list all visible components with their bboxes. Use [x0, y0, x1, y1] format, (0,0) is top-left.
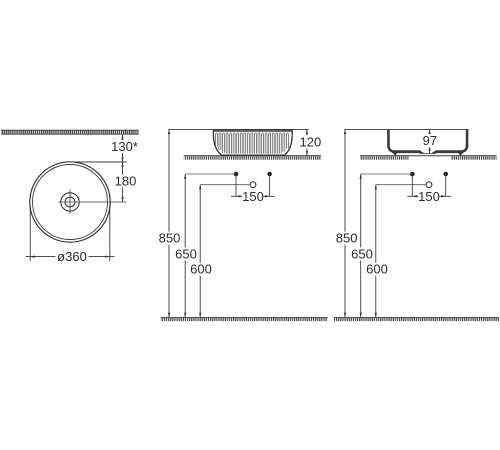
- label 650 (front): [174, 246, 198, 261]
- arrow right 150 (front): [265, 195, 270, 197]
- drain inner circle: [65, 197, 75, 207]
- arrow right 150 (section): [441, 195, 446, 197]
- dimension line 120: [306, 129, 308, 155]
- drain outer circle: [61, 193, 79, 211]
- svg-text:ø360: ø360: [57, 249, 87, 264]
- label 130*: [110, 139, 139, 154]
- extension line drain level: [200, 184, 250, 186]
- dimension line 97: [429, 129, 431, 153]
- arrow down 600 (front): [199, 313, 201, 318]
- counter hatch right (section): [451, 156, 497, 159]
- extension line circle left for diameter: [29, 207, 31, 261]
- floor hatch strip (section view): [334, 318, 499, 322]
- label 850 (front): [158, 231, 182, 246]
- extension line dots level (section): [361, 173, 413, 175]
- arrow up 600 (section): [375, 185, 377, 190]
- svg-text:130*: 130*: [111, 139, 138, 154]
- tap hole dot left (front): [234, 172, 239, 177]
- tap hole dot right (front): [267, 172, 272, 177]
- dimension line 600 (section): [375, 185, 377, 318]
- drain centerline horizontal: [59, 201, 127, 203]
- label 97: [422, 133, 439, 148]
- wall hatch strip (top view): [1, 130, 139, 135]
- svg-text:850: 850: [159, 231, 181, 246]
- stem left dot (section): [411, 174, 413, 196]
- basin right side (front): [285, 130, 292, 155]
- svg-text:650: 650: [175, 246, 197, 261]
- arrow down at circle center: [121, 197, 123, 202]
- dimension line 600 (front): [199, 185, 201, 318]
- label 600 (front): [189, 262, 213, 277]
- stem left dot: [235, 174, 237, 196]
- label 600 (section): [365, 262, 389, 277]
- arrow down 850 (front): [168, 313, 170, 318]
- extension line circle right for diameter: [109, 207, 111, 261]
- arrow up at circle top: [121, 162, 123, 167]
- arrow up at wall: [121, 135, 123, 140]
- label 150 (section): [418, 189, 440, 204]
- svg-text:150: 150: [242, 189, 264, 204]
- arrow up 600 (front): [199, 185, 201, 190]
- svg-text:600: 600: [190, 262, 212, 277]
- section drain taper left: [420, 150, 425, 153]
- section drain taper right: [431, 150, 436, 153]
- dimension line 150 (front): [231, 195, 275, 197]
- counter top line (section): [360, 155, 497, 157]
- dimension line 130/180 vertical: [122, 135, 124, 202]
- arrow right diameter: [105, 255, 110, 257]
- extension line rim (section): [345, 128, 469, 130]
- arrow down 650 (section): [360, 313, 362, 318]
- section left wall: [388, 130, 393, 152]
- label 180: [114, 174, 138, 189]
- arrow left diameter: [30, 255, 35, 257]
- dimension line 850 (section): [344, 129, 346, 317]
- section foot tab right: [458, 152, 464, 155]
- arrow up 850 (section): [344, 129, 346, 134]
- stem right dot (section): [445, 174, 447, 196]
- arrow left 150 (front): [236, 195, 241, 197]
- extension line dots level: [185, 173, 236, 175]
- dimension line 150 (section): [407, 195, 451, 197]
- arrow down 97: [428, 149, 430, 154]
- basin rim (front): [213, 130, 292, 132]
- arrow up 650 (section): [360, 174, 362, 179]
- svg-text:850: 850: [336, 231, 358, 246]
- stem right dot: [269, 174, 271, 196]
- open circle drain (front): [250, 182, 256, 188]
- arrow down 600 (section): [375, 313, 377, 318]
- basin left side (front): [213, 130, 221, 155]
- dimension line 650 (front): [184, 174, 186, 317]
- extension line basin top: [169, 128, 309, 130]
- tap hole dot left (section): [410, 172, 415, 177]
- label diameter 360: [56, 249, 89, 264]
- arrow up 120: [306, 129, 308, 134]
- counter hatch strip (front view): [184, 156, 321, 160]
- floor hatch strip (front view): [161, 318, 328, 322]
- svg-text:120: 120: [300, 134, 322, 149]
- section right wall: [462, 130, 467, 152]
- dimension line 850 (front): [168, 129, 170, 317]
- drain centerline vertical: [69, 190, 71, 215]
- basin bottom (front): [221, 154, 286, 156]
- section foot tab left: [392, 152, 398, 155]
- arrow down at circle top: [121, 157, 123, 162]
- label 120: [300, 134, 322, 149]
- svg-text:600: 600: [366, 262, 388, 277]
- label 850 (section): [335, 231, 359, 246]
- arrow up 97: [428, 129, 430, 134]
- dimension line 650 (section): [360, 174, 362, 317]
- tap hole dot right (section): [443, 172, 448, 177]
- section drain bottom line: [420, 153, 437, 155]
- svg-text:150: 150: [418, 189, 440, 204]
- basin outer circle (top view): [30, 162, 110, 242]
- open circle drain (section): [426, 182, 432, 188]
- basin inner circle (top view): [33, 165, 108, 240]
- arrow down 650 (front): [184, 313, 186, 318]
- svg-text:180: 180: [115, 174, 137, 189]
- label 650 (section): [350, 246, 374, 261]
- counter hatch left (section): [360, 156, 409, 159]
- arrow down 120: [306, 151, 308, 156]
- arrow up 650 (front): [184, 174, 186, 179]
- arrow down 850 (section): [344, 313, 346, 318]
- arrow up 850 (front): [168, 129, 170, 134]
- dimension line diameter: [26, 256, 115, 258]
- label 150 (front): [242, 189, 264, 204]
- section bottom band right: [436, 150, 464, 153]
- extension line drain level (section): [376, 184, 426, 186]
- basin flutes: [215, 133, 288, 154]
- section bottom band left: [392, 150, 420, 153]
- svg-text:97: 97: [423, 133, 437, 148]
- arrow left 150 (section): [412, 195, 417, 197]
- extension line circle top: [70, 161, 127, 163]
- svg-text:650: 650: [351, 246, 373, 261]
